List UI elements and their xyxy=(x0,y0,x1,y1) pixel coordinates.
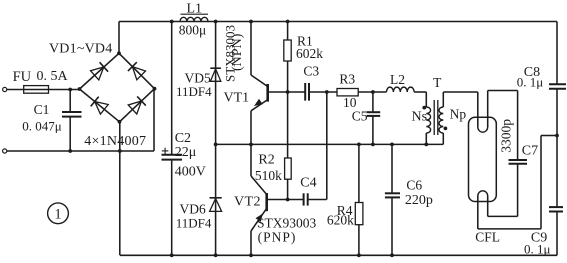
svg-text:CFL: CFL xyxy=(475,229,500,244)
svg-text:400V: 400V xyxy=(175,165,206,180)
svg-text:C1: C1 xyxy=(34,102,50,117)
svg-text:C3: C3 xyxy=(303,64,319,79)
svg-text:620k: 620k xyxy=(327,213,354,228)
svg-text:0. 5A: 0. 5A xyxy=(37,69,69,84)
svg-text:VD1~VD4: VD1~VD4 xyxy=(49,41,112,56)
svg-text:C6: C6 xyxy=(406,178,422,193)
svg-text:Np: Np xyxy=(450,107,467,122)
svg-text:VT2: VT2 xyxy=(234,195,261,210)
svg-text:R3: R3 xyxy=(339,72,355,87)
svg-text:1: 1 xyxy=(54,206,61,222)
svg-text:STX93003: STX93003 xyxy=(257,215,317,230)
svg-text:L1: L1 xyxy=(187,2,203,17)
svg-text:(PNP): (PNP) xyxy=(258,230,297,245)
svg-text:602k: 602k xyxy=(296,46,323,61)
svg-text:C5: C5 xyxy=(352,109,368,124)
svg-text:0. 1μ: 0. 1μ xyxy=(517,74,544,89)
svg-text:22μ: 22μ xyxy=(175,145,197,160)
svg-text:220p: 220p xyxy=(405,193,433,208)
svg-text:R2: R2 xyxy=(258,153,274,168)
svg-text:0. 1μ: 0. 1μ xyxy=(524,241,551,256)
svg-text:VD6: VD6 xyxy=(180,201,206,216)
svg-text:T: T xyxy=(433,75,442,90)
svg-text:800μ: 800μ xyxy=(179,23,207,38)
svg-text:C7: C7 xyxy=(522,144,538,159)
svg-text:VT1: VT1 xyxy=(224,90,250,105)
svg-text:510k: 510k xyxy=(255,168,282,183)
svg-text:C2: C2 xyxy=(175,131,191,146)
svg-text:C4: C4 xyxy=(300,175,316,190)
svg-text:11DF4: 11DF4 xyxy=(176,84,212,99)
svg-text:11DF4: 11DF4 xyxy=(176,216,212,231)
svg-text:4×1N4007: 4×1N4007 xyxy=(84,134,146,149)
svg-text:Ns: Ns xyxy=(412,109,428,124)
svg-text:3300p: 3300p xyxy=(498,119,513,153)
svg-text:(NPN): (NPN) xyxy=(230,33,245,71)
svg-text:L2: L2 xyxy=(390,72,405,87)
svg-text:0. 047μ: 0. 047μ xyxy=(22,119,62,134)
svg-text:FU: FU xyxy=(13,69,32,85)
